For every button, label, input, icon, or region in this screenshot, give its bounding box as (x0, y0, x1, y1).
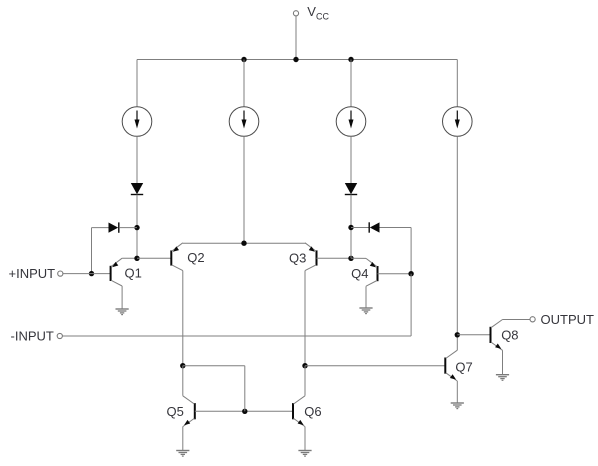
junction D1-D3 node (134, 225, 139, 230)
transistor Q3 (305, 243, 317, 271)
junction Q2-Q5 collector node (180, 363, 185, 368)
label Q2 (187, 250, 204, 265)
wire I1 to D1 (136, 136, 138, 183)
current source I3 (336, 107, 366, 137)
wire Q7 emitter down (456, 381, 458, 403)
wire D4 anode right (380, 227, 412, 229)
junction Q3 base node (348, 256, 353, 261)
wire Q6 collector to Q7 base (305, 365, 445, 367)
current source I4 (443, 107, 473, 137)
svg-text:OUTPUT: OUTPUT (541, 312, 595, 327)
wire -input riser (410, 274, 412, 336)
current source I2 (229, 107, 259, 137)
label Q7 (455, 359, 472, 374)
wire Q5 base to Q6 base (195, 410, 293, 412)
label OUTPUT (541, 312, 595, 327)
input terminal +INPUT (58, 271, 63, 276)
label Q4 (351, 266, 368, 281)
wire Q8 emitter down (502, 350, 504, 374)
transistor Q6 (293, 396, 305, 427)
input terminal -INPUT (57, 333, 62, 338)
diode D4 (369, 222, 379, 232)
wire Q4 emitter to node (351, 257, 366, 259)
svg-text:Q6: Q6 (304, 404, 321, 419)
transistor Q4 (366, 258, 378, 286)
power terminal VCC (293, 11, 298, 60)
junction rail-I2 (241, 57, 246, 62)
junction rail-I3 (348, 57, 353, 62)
junction Q7 collector - Q8 base (455, 332, 460, 337)
label Q3 (289, 250, 306, 265)
diode D3 (109, 222, 119, 232)
wire Q5 emitter down (182, 427, 184, 451)
label Q6 (304, 404, 321, 419)
svg-text:Q1: Q1 (125, 266, 142, 281)
ground under Q7 (451, 403, 464, 409)
label Q1 (125, 266, 142, 281)
wire node to D4 cathode (351, 227, 369, 229)
ground under Q6 (298, 451, 311, 457)
wire D3 cathode to node (120, 227, 137, 229)
wire mirror link vertical (244, 366, 246, 412)
junction Q1 emitter node (134, 256, 139, 261)
ground under Q1 (116, 309, 129, 315)
label Q5 (167, 404, 184, 419)
wire I4 to Q7 collector (456, 136, 458, 350)
ground under Q8 (496, 375, 509, 381)
svg-text:Q8: Q8 (501, 328, 518, 343)
wire Q8 base (457, 334, 490, 336)
wire D2 to Q3 base node (350, 195, 352, 259)
wire Q8 collector to output (503, 319, 531, 321)
wire I2 to emitter tail (243, 136, 245, 243)
junction mirror base node (242, 409, 247, 414)
svg-text:-INPUT: -INPUT (11, 329, 54, 344)
transistor Q2 (171, 243, 183, 271)
transistor Q8 (491, 320, 503, 351)
transistor Q5 (183, 396, 195, 427)
svg-text:VCC: VCC (307, 4, 329, 21)
wire Q2 collector down (182, 271, 184, 366)
svg-text:Q7: Q7 (455, 359, 472, 374)
wire -INPUT rail (62, 335, 411, 337)
svg-text:Q2: Q2 (187, 250, 204, 265)
diode D2 (345, 183, 357, 195)
junction tail-I2 (241, 241, 246, 246)
wire D3 anode left (92, 227, 109, 229)
junction Q4 base node (408, 271, 413, 276)
label VCC (307, 4, 329, 21)
wire node to Q2 base (137, 257, 171, 259)
svg-text:+INPUT: +INPUT (9, 266, 56, 281)
wire Q3 collector down (304, 271, 306, 366)
junction Q3-Q6 collector node (302, 363, 307, 368)
wire Q1 collector down (121, 286, 123, 309)
junction D2-D4 node (348, 225, 353, 230)
wire top supply rail (137, 59, 457, 61)
wire Q4 collector down (365, 286, 367, 308)
wire Q4 base right (378, 273, 412, 275)
current source I1 (122, 107, 152, 137)
junction +input-D3 (89, 271, 94, 276)
wire mirror link horizontal (183, 365, 245, 367)
output terminal OUTPUT (530, 317, 535, 322)
wire D1 to Q2 base node (136, 195, 138, 259)
wire Q3 base to node (317, 257, 352, 259)
junction rail-VCC (293, 57, 298, 62)
transistor Q7 (445, 350, 457, 381)
wire rail to I1 (136, 60, 138, 107)
wire I3 to D2 (350, 136, 352, 183)
wire Q6 emitter down (304, 427, 306, 451)
label Q8 (501, 328, 518, 343)
wire Q5 collector up (182, 366, 184, 396)
svg-text:Q5: Q5 (167, 404, 184, 419)
wire rail to I2 (243, 60, 245, 107)
svg-text:Q4: Q4 (351, 266, 368, 281)
wire +INPUT to Q1 base (63, 273, 111, 275)
wire rail to I3 (350, 60, 352, 107)
diode D1 (131, 183, 143, 195)
transistor Q1 (111, 258, 123, 286)
label +INPUT (9, 266, 56, 281)
wire D4 to Q4 base node (410, 228, 412, 274)
label -INPUT (11, 329, 54, 344)
wire emitter tail rail (183, 242, 306, 244)
wire Q6 collector up (304, 366, 306, 396)
ground under Q5 (176, 451, 189, 457)
wire Q1 emitter to node (122, 257, 137, 259)
ground under Q4 (359, 308, 372, 314)
svg-text:Q3: Q3 (289, 250, 306, 265)
wire rail to I4 (456, 60, 458, 107)
wire D3 anode down to +input (91, 228, 93, 274)
